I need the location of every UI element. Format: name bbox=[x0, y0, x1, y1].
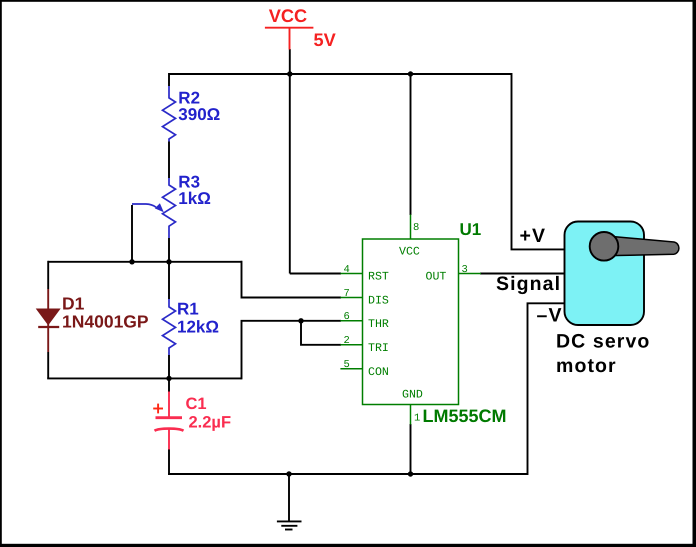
wire mid rail drop to DIS bbox=[242, 261, 342, 298]
junction R1 bottom / box bottom bbox=[166, 376, 171, 381]
polarity plus sign bbox=[153, 404, 163, 414]
wire left box left side bbox=[47, 261, 49, 289]
wiper arrowhead bbox=[155, 203, 164, 212]
svg-text:C1: C1 bbox=[186, 395, 207, 413]
svg-text:1: 1 bbox=[414, 413, 420, 425]
wire D1 bottom to box bottom bbox=[47, 352, 49, 378]
svg-text:–V: –V bbox=[537, 305, 563, 327]
svg-text:2: 2 bbox=[344, 335, 350, 347]
wire -V to ground rail bbox=[528, 303, 566, 475]
wire top power rail bbox=[169, 73, 512, 75]
wire OUT to Signal bbox=[480, 273, 565, 275]
svg-text:CON: CON bbox=[368, 366, 389, 379]
pin 6 THR stub bbox=[340, 320, 362, 322]
potentiometer R3 bbox=[132, 178, 176, 238]
svg-text:1kΩ: 1kΩ bbox=[178, 189, 211, 208]
wire riser to THR bbox=[242, 321, 342, 380]
svg-text:D1: D1 bbox=[62, 294, 85, 314]
svg-text:DIS: DIS bbox=[368, 295, 389, 308]
DC servo motor body bbox=[565, 222, 645, 326]
svg-text:U1: U1 bbox=[460, 220, 482, 239]
svg-text:8: 8 bbox=[413, 222, 419, 234]
svg-text:DC servo: DC servo bbox=[556, 331, 650, 353]
svg-text:6: 6 bbox=[344, 311, 350, 323]
wire left box bottom bbox=[47, 377, 241, 379]
junction at VCC / top rail bbox=[287, 71, 292, 76]
wire C1 bottom lead bbox=[168, 449, 170, 475]
capacitor C1 bbox=[155, 392, 184, 450]
svg-text:4: 4 bbox=[344, 264, 350, 276]
svg-text:LM555CM: LM555CM bbox=[423, 406, 507, 426]
svg-text:12kΩ: 12kΩ bbox=[177, 317, 219, 336]
wire bottom node to C1 bbox=[168, 378, 170, 392]
svg-text:R1: R1 bbox=[177, 300, 199, 319]
junction R3 bottom / mid rail bbox=[166, 259, 171, 264]
svg-text:5V: 5V bbox=[314, 30, 336, 50]
svg-text:motor: motor bbox=[556, 355, 617, 377]
svg-text:Signal: Signal bbox=[496, 273, 561, 295]
wire VCC stem black part down to RST bbox=[289, 49, 291, 274]
resistor R1 bbox=[163, 299, 176, 355]
wire pot wiper branch vertical bbox=[131, 205, 133, 262]
motor shaft bar bbox=[604, 236, 679, 256]
svg-text:VCC: VCC bbox=[399, 246, 420, 259]
pin 7 DIS stub bbox=[340, 297, 362, 299]
svg-text:TRI: TRI bbox=[368, 342, 389, 355]
svg-text:3: 3 bbox=[462, 264, 468, 276]
ground symbol bbox=[277, 521, 302, 529]
resistor R2 bbox=[163, 86, 176, 142]
wire THR to TRI branch bbox=[301, 321, 341, 345]
pin 3 OUT stub bbox=[459, 273, 482, 275]
wire R1 bottom to bottom node bbox=[168, 355, 170, 378]
wire node to R1 top bbox=[168, 262, 170, 299]
wire +V from rail to motor bbox=[512, 73, 566, 249]
svg-text:2.2µF: 2.2µF bbox=[189, 414, 232, 432]
svg-text:GND: GND bbox=[402, 389, 423, 402]
junction pin1 / ground rail bbox=[408, 471, 413, 476]
junction ground stub bbox=[286, 471, 291, 476]
diode D1 bbox=[37, 289, 60, 352]
wire IC pin1 to ground rail bbox=[410, 424, 412, 474]
wire R2 top lead from rail bbox=[168, 73, 170, 86]
IC U1 LM555CM body bbox=[340, 215, 481, 425]
junction wiper / mid rail bbox=[129, 259, 134, 264]
pin 1 GND stub bbox=[410, 405, 412, 425]
pin 8 VCC stub bbox=[410, 215, 412, 240]
motor shaft hub circle bbox=[590, 232, 619, 261]
svg-text:7: 7 bbox=[344, 288, 350, 300]
wire R2-R3 interconnect bbox=[168, 142, 170, 179]
svg-text:OUT: OUT bbox=[426, 271, 447, 284]
wire RST pin4 horizontal bbox=[290, 273, 341, 275]
svg-text:VCC: VCC bbox=[269, 6, 307, 26]
pin 4 RST stub bbox=[340, 273, 362, 275]
junction THR / TRI branch bbox=[298, 318, 303, 323]
wire mid rail bbox=[48, 261, 241, 263]
pin 5 CON stub bbox=[340, 368, 362, 370]
wire bottom ground rail bbox=[168, 473, 527, 475]
svg-text:THR: THR bbox=[368, 318, 389, 331]
wire IC pin8 drop from rail bbox=[410, 73, 412, 215]
power VCC symbol bbox=[265, 28, 314, 50]
svg-text:+V: +V bbox=[520, 225, 547, 247]
svg-text:RST: RST bbox=[368, 271, 389, 284]
svg-text:390Ω: 390Ω bbox=[178, 105, 220, 124]
pin 2 TRI stub bbox=[340, 344, 362, 346]
svg-text:1N4001GP: 1N4001GP bbox=[62, 312, 149, 332]
svg-text:5: 5 bbox=[344, 359, 350, 371]
wiper arm bbox=[132, 204, 156, 207]
wire R3 bottom to mid node bbox=[168, 238, 170, 262]
junction at pin8 / top rail bbox=[408, 71, 413, 76]
wire ground stub bbox=[288, 474, 290, 521]
